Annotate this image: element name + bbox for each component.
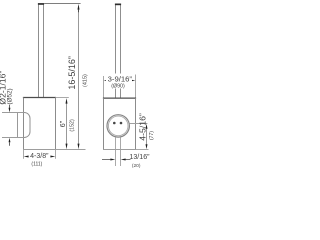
dim 20 extension lines	[116, 137, 121, 166]
dim Ø52 arrow down	[9, 105, 11, 113]
left view: wall rosette plate	[17, 113, 19, 138]
left view: brush handle rod	[39, 5, 44, 98]
dim 20 arrow pointing left	[121, 158, 131, 160]
right view: body	[103, 98, 136, 149]
svg-text:(Ø52): (Ø52)	[6, 88, 13, 104]
dim 415 line	[78, 8, 80, 145]
dim 415 top extension line	[44, 3, 81, 5]
halo behind width labels	[106, 74, 132, 89]
dim 20 arrow pointing right	[102, 158, 115, 160]
dim 110 line	[146, 129, 148, 145]
dim 110 bottom extension line	[136, 149, 149, 151]
dim 6" line	[66, 103, 68, 145]
right view: rod	[116, 5, 121, 98]
dim 110 arrow up	[146, 124, 148, 129]
svg-text:4-5/16”: 4-5/16”	[137, 113, 147, 141]
dim 110 extension line from circle	[129, 123, 147, 125]
right rod top cap	[115, 4, 121, 6]
dim Ø90 arrow right	[130, 80, 135, 82]
left view: cup dome seen from side	[24, 113, 31, 138]
dim Ø90 extension lines	[104, 75, 136, 98]
svg-text:(77): (77)	[149, 131, 155, 140]
screw hole left	[113, 122, 116, 125]
dim 111 arrow right	[50, 156, 55, 158]
dim 6" arrow down	[66, 144, 68, 150]
dim 111 arrow left	[24, 156, 29, 158]
svg-text:13/16”: 13/16”	[129, 153, 150, 161]
svg-text:(Ø90): (Ø90)	[111, 84, 125, 90]
svg-text:4-3/8”: 4-3/8”	[30, 153, 49, 160]
rosette circle	[107, 115, 129, 137]
svg-text:6”: 6”	[58, 120, 67, 127]
svg-text:(415): (415)	[82, 74, 88, 87]
dim Ø52 extension lines	[2, 113, 24, 138]
svg-text:(111): (111)	[31, 161, 42, 167]
dim 111 extension lines	[24, 150, 56, 159]
left rod top cap	[38, 3, 44, 5]
svg-text:3-9/16”: 3-9/16”	[108, 75, 133, 84]
svg-text:(20): (20)	[132, 163, 141, 169]
dim Ø90 arrow left	[104, 80, 109, 82]
svg-text:(152): (152)	[69, 119, 75, 132]
dim Ø52 arrow up	[9, 138, 11, 146]
bottom shared extension line	[56, 149, 86, 151]
dim 6" arrow up	[66, 98, 68, 104]
dim 110 arrow down	[146, 144, 148, 149]
left view: holder body	[23, 98, 56, 150]
rosette inner ring	[108, 116, 128, 136]
dim 6" top extension line	[56, 97, 69, 99]
svg-text:16-5/16”: 16-5/16”	[67, 56, 77, 90]
dim 415 arrow up	[78, 4, 80, 12]
screw hole right	[120, 122, 123, 125]
dim 415 arrow down	[78, 144, 80, 150]
